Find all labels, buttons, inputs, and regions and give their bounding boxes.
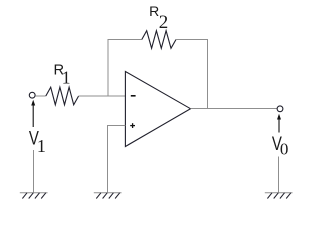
ground (right) <box>265 193 293 199</box>
wire non-inverting input to ground <box>108 126 126 193</box>
ground (middle) <box>94 193 122 199</box>
resistor R2 <box>142 31 176 49</box>
resistor R1 <box>46 87 79 105</box>
svg-text:1: 1 <box>37 136 46 156</box>
svg-text:1: 1 <box>62 68 71 88</box>
arrow Vo <box>277 114 281 133</box>
svg-text:2: 2 <box>159 12 169 33</box>
op-amp U1 <box>125 72 190 147</box>
node Vo output terminal <box>277 106 283 112</box>
arrow Vi <box>31 100 35 127</box>
wire Vo label to ground <box>278 157 280 193</box>
wire Vi label to ground <box>33 150 35 193</box>
wire R1 to inverting input <box>79 95 126 97</box>
ground (left) <box>20 193 48 199</box>
wire R2 right to output node <box>176 40 208 109</box>
wire terminal to R1 <box>35 95 46 97</box>
svg-text:0: 0 <box>280 140 289 159</box>
node Vi input terminal <box>29 92 35 98</box>
wire feedback left vertical (node A to R2 left) <box>108 40 142 97</box>
wire op-amp output <box>191 108 278 110</box>
